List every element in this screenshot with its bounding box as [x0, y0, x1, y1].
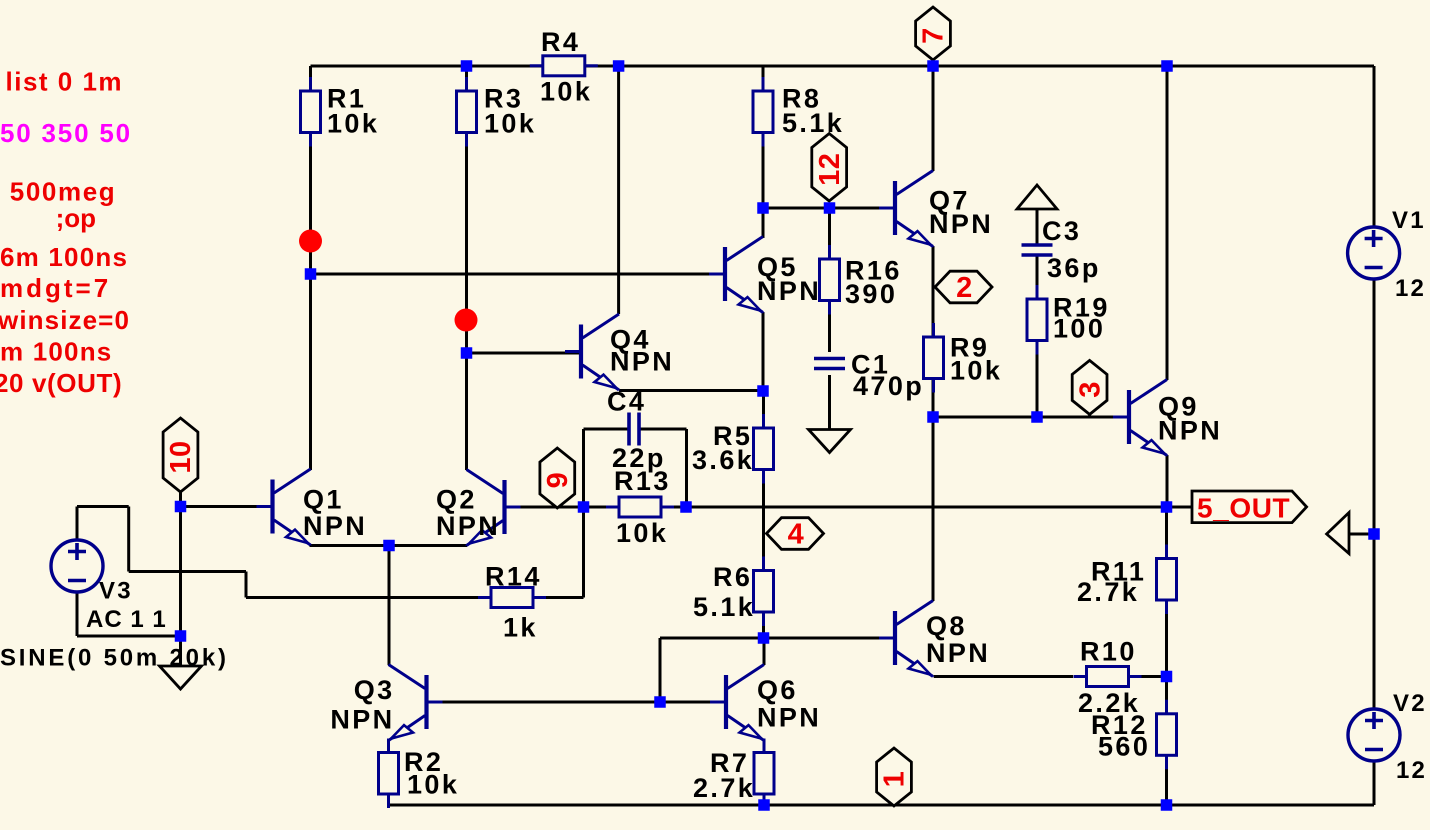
svg-text:1k: 1k: [503, 613, 538, 643]
svg-text:;op: ;op: [56, 203, 96, 233]
svg-text:NPN: NPN: [757, 276, 821, 306]
svg-text:Q3: Q3: [354, 675, 395, 705]
svg-text:2.7k: 2.7k: [693, 773, 755, 803]
svg-text:NPN: NPN: [1158, 416, 1222, 446]
svg-text:12: 12: [814, 153, 846, 186]
svg-text:10k: 10k: [407, 770, 459, 800]
svg-text:470p: 470p: [853, 371, 924, 401]
svg-text:V1: V1: [1392, 207, 1426, 234]
svg-text:10k: 10k: [327, 109, 379, 139]
svg-text:390: 390: [845, 279, 897, 309]
svg-text:10k: 10k: [540, 77, 592, 107]
svg-text:V3: V3: [99, 578, 133, 605]
svg-text:3: 3: [1074, 381, 1106, 398]
svg-text:C4: C4: [607, 387, 646, 417]
svg-text:m 100ns: m 100ns: [0, 337, 112, 367]
svg-text:V2: V2: [1393, 690, 1427, 717]
svg-text:SINE(0 50m 20k): SINE(0 50m 20k): [0, 645, 229, 672]
svg-text:6m 100ns: 6m 100ns: [0, 242, 128, 272]
svg-text:20 v(OUT): 20 v(OUT): [0, 368, 122, 398]
svg-text:Q8: Q8: [926, 611, 967, 641]
svg-text:R10: R10: [1080, 637, 1137, 667]
svg-text:10k: 10k: [950, 356, 1002, 386]
svg-text:NPN: NPN: [436, 511, 500, 541]
svg-text:NPN: NPN: [757, 703, 821, 733]
svg-text:winsize=0: winsize=0: [0, 305, 130, 335]
svg-text:NPN: NPN: [926, 638, 990, 668]
svg-text:5.1k: 5.1k: [782, 108, 844, 138]
svg-text:NPN: NPN: [610, 347, 674, 377]
svg-text:R6: R6: [713, 562, 752, 592]
svg-text:10: 10: [165, 440, 197, 473]
svg-text:50 350 50: 50 350 50: [0, 118, 132, 148]
svg-text:12: 12: [1395, 275, 1426, 302]
svg-text:NPN: NPN: [303, 511, 367, 541]
svg-text:R14: R14: [485, 562, 542, 592]
svg-text:AC 1 1: AC 1 1: [86, 606, 167, 633]
svg-text:10k: 10k: [484, 109, 536, 139]
svg-text:R13: R13: [614, 466, 671, 496]
svg-text:36p: 36p: [1047, 253, 1101, 283]
svg-text:5_OUT: 5_OUT: [1197, 493, 1290, 524]
svg-text:100: 100: [1053, 314, 1105, 344]
svg-text:R4: R4: [541, 27, 580, 57]
svg-text:3.6k: 3.6k: [692, 445, 754, 475]
svg-text:mdgt=7: mdgt=7: [0, 273, 111, 303]
svg-text:2: 2: [956, 272, 973, 304]
svg-text:7: 7: [918, 27, 950, 44]
svg-text:5.1k: 5.1k: [693, 592, 755, 622]
svg-text:1: 1: [879, 771, 911, 788]
svg-text:4: 4: [788, 519, 805, 551]
svg-text:9: 9: [542, 472, 574, 489]
svg-text:C3: C3: [1042, 216, 1081, 246]
svg-text:NPN: NPN: [929, 209, 993, 239]
svg-text:Q6: Q6: [757, 675, 798, 705]
svg-text:Q1: Q1: [303, 484, 344, 514]
svg-text:2.7k: 2.7k: [1077, 577, 1139, 607]
svg-text:Q2: Q2: [436, 484, 477, 514]
svg-text:10k: 10k: [616, 518, 668, 548]
svg-text:NPN: NPN: [330, 705, 394, 735]
svg-text:list 0 1m: list 0 1m: [6, 67, 124, 97]
svg-text:560: 560: [1098, 732, 1150, 762]
svg-text:12: 12: [1396, 757, 1427, 784]
